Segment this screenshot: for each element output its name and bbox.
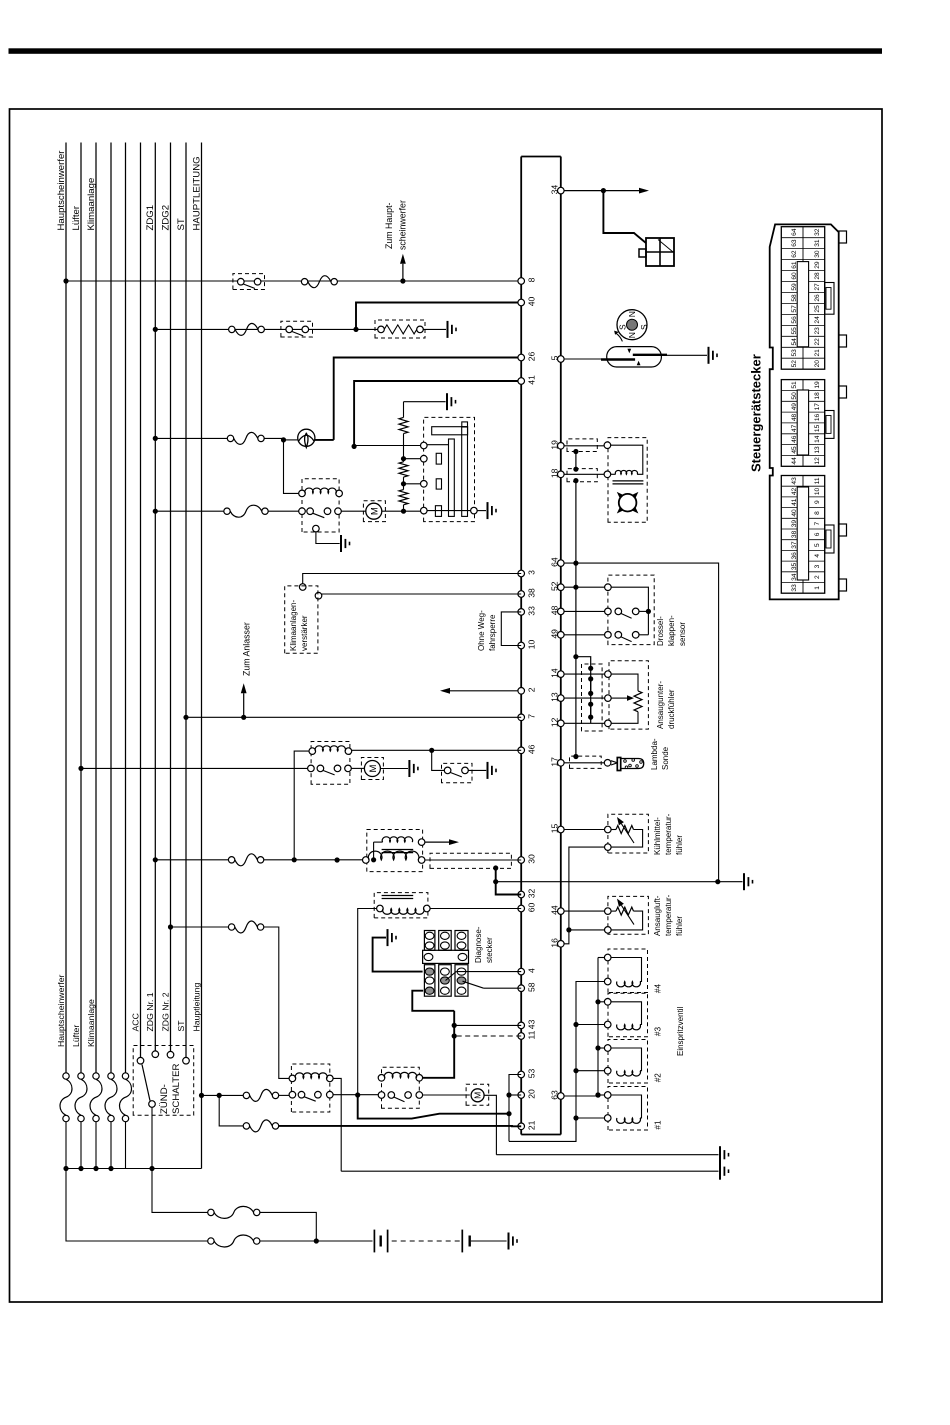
wire pin38: [315, 593, 521, 595]
pin 43: [518, 1022, 525, 1029]
fuse on line l4: [108, 1115, 114, 1121]
junction bus jog: [573, 654, 578, 659]
wire rowM left: [155, 510, 227, 512]
junction ign1 row: [292, 857, 297, 862]
reed plate 2: [601, 358, 635, 360]
TPS dashed box: [608, 575, 654, 645]
junction return #2: [573, 1068, 578, 1073]
svg-text:10: 10: [527, 640, 537, 650]
svg-text:5: 5: [814, 543, 821, 547]
svg-text:fühler: fühler: [675, 835, 684, 855]
wire fuse to V junction: [264, 437, 283, 439]
junction 509 mid: [506, 1111, 511, 1116]
wire common to collector: [151, 1107, 153, 1168]
lambda speckles: [624, 760, 627, 763]
pin 41: [518, 378, 525, 385]
svg-text:17: 17: [814, 403, 821, 411]
coil #3: [617, 1025, 641, 1030]
idle valve core: [613, 480, 644, 482]
wire supply line hl: [201, 143, 203, 1169]
pin 44: [558, 908, 565, 915]
svg-text:21: 21: [814, 349, 821, 357]
ignition coil1 dashed box: [367, 830, 423, 872]
coil1 core: [382, 852, 414, 854]
stub igniter: [495, 868, 497, 882]
svg-text:44: 44: [791, 457, 798, 465]
svg-text:N: N: [627, 332, 637, 338]
AC relay dashed box: [311, 742, 350, 785]
svg-text:39: 39: [791, 520, 798, 528]
magnet rotation arc: [616, 333, 623, 341]
svg-text:54: 54: [791, 338, 798, 346]
pin 64: [558, 560, 565, 567]
svg-text:ZDG1: ZDG1: [145, 205, 156, 231]
svg-text:ST: ST: [176, 218, 187, 230]
junction zdg1 rowV: [153, 436, 158, 441]
svg-text:32: 32: [527, 889, 537, 899]
wire top terminal into bar: [427, 444, 449, 446]
ground row40: [447, 321, 449, 338]
svg-text:64: 64: [549, 557, 559, 567]
diag block lower (3 boxes x3 ellipses): [424, 965, 435, 997]
ladder wire 1-2: [403, 434, 405, 459]
idle valve loop wire: [611, 445, 643, 474]
wire AC contacts to M: [351, 767, 364, 769]
injector #3: [608, 993, 648, 1037]
svg-text:36: 36: [791, 552, 798, 560]
svg-text:3: 3: [814, 564, 821, 568]
terminal ST: [183, 1057, 190, 1064]
wire supply line st: [185, 143, 187, 1061]
fuse relayA: [243, 1092, 249, 1098]
wire to right ground: [496, 881, 718, 883]
wire tap2 to pot: [404, 483, 421, 485]
wire branch to fuse 21: [219, 1095, 246, 1126]
svg-text:29: 29: [814, 261, 821, 269]
coolant dashed box: [608, 814, 649, 853]
wire row8: [66, 280, 521, 282]
thick link to diag connector: [412, 991, 454, 1011]
coil2 core: [382, 898, 414, 900]
M pump dashed box: [466, 1084, 489, 1105]
M dashed box: [363, 501, 385, 522]
svg-text:61: 61: [791, 261, 798, 269]
injector return bus: [576, 982, 605, 1141]
junction branch 21: [217, 1093, 222, 1098]
junction 64-wire gnd: [715, 879, 720, 884]
svg-text:6: 6: [814, 532, 821, 536]
dashed connector 18: [567, 469, 597, 482]
lambda cone link: [611, 761, 617, 763]
MAP wiper arrow: [611, 697, 627, 699]
wire pin32 link: [496, 882, 522, 895]
wire pin12: [564, 722, 605, 724]
junction supply #1: [595, 1092, 600, 1097]
wire after fuse l5: [125, 1122, 127, 1169]
wire sensor to ground: [667, 354, 707, 356]
pot dashed box: [424, 417, 475, 521]
wire relayB to M pump: [423, 1094, 470, 1096]
wire contacts A to B: [333, 1094, 378, 1096]
svg-text:5: 5: [549, 355, 559, 360]
wire supply line l2: [80, 143, 82, 1076]
pin 46: [518, 747, 525, 754]
wire hl to fuse: [202, 1094, 247, 1096]
junction return #1: [573, 1115, 578, 1120]
speed sensor capsule: [607, 347, 662, 367]
ladder resistor 2: [399, 462, 408, 477]
ecu block 33-43: [781, 476, 824, 594]
magnet circle: [617, 310, 647, 340]
pin 7: [518, 714, 525, 721]
fuse main: [208, 1209, 214, 1215]
wire pin4: [456, 971, 521, 973]
junction hauptleitung: [199, 1093, 204, 1098]
wire ign2 to fuse: [171, 926, 232, 928]
wire coolant return to 16 bus: [569, 847, 605, 930]
wire pin18: [564, 473, 604, 475]
rotary valve symbol: [619, 494, 637, 512]
wire bus to pin16: [564, 930, 569, 944]
bus long segment: [575, 481, 577, 757]
svg-text:60: 60: [527, 903, 537, 913]
top rule bar: [9, 48, 883, 54]
thick link to relayB coil: [423, 1011, 455, 1078]
ground pot: [487, 502, 489, 519]
pin 33: [518, 609, 525, 616]
trunk icon diagonal: [658, 240, 673, 253]
HT arrow: [425, 841, 449, 843]
svg-text:14: 14: [814, 435, 821, 443]
block grid: [781, 357, 824, 359]
fuse row40: [229, 326, 235, 332]
wire battery line lower: [260, 1240, 373, 1242]
ground AC switch: [487, 762, 489, 779]
ecu block 44-51: [781, 380, 824, 467]
svg-text:verstärker: verstärker: [300, 615, 309, 651]
svg-text:2: 2: [527, 687, 537, 692]
wire air return: [569, 929, 605, 931]
junction return #3: [573, 1022, 578, 1027]
svg-text:Lambda-: Lambda-: [650, 738, 659, 770]
coolant arrow: [621, 824, 634, 843]
jumper wire: [501, 612, 521, 646]
svg-text:25: 25: [814, 305, 821, 313]
svg-text:58: 58: [791, 294, 798, 302]
svg-text:8: 8: [814, 511, 821, 515]
svg-text:49: 49: [791, 403, 798, 411]
svg-text:4: 4: [527, 968, 537, 973]
svg-text:11: 11: [527, 1030, 537, 1039]
junction bus 52: [573, 585, 578, 590]
svg-text:19: 19: [814, 381, 821, 389]
V symbol tach: [298, 429, 315, 446]
svg-text:#1: #1: [654, 1120, 663, 1130]
igniter dashed box pin30: [430, 853, 511, 868]
wire r3 to M row: [403, 505, 405, 511]
svg-text:63: 63: [791, 239, 798, 247]
svg-text:11: 11: [814, 477, 821, 484]
svg-text:Klimaanlage: Klimaanlage: [86, 999, 96, 1047]
wire diag to pin58: [463, 981, 484, 988]
svg-text:Zum Anlasser: Zum Anlasser: [242, 622, 252, 676]
pin 15: [558, 826, 565, 833]
switch dashed row8: [233, 274, 265, 290]
svg-text:temperatur-: temperatur-: [664, 813, 673, 855]
pin 21: [518, 1123, 525, 1130]
svg-text:62: 62: [791, 250, 798, 258]
rail right end: [521, 156, 561, 158]
coil1 primary winding: [363, 857, 370, 864]
svg-text:60: 60: [791, 272, 798, 280]
lambda flange bar: [617, 758, 620, 771]
relay1 coil: [299, 490, 306, 497]
junction collector switch-common: [149, 1166, 154, 1171]
ground diag: [387, 929, 389, 946]
svg-text:41: 41: [791, 498, 798, 506]
pin 53: [518, 1071, 525, 1078]
pin 20: [518, 1092, 525, 1099]
svg-text:Hauptscheinwerfer: Hauptscheinwerfer: [56, 974, 66, 1047]
terminal ACC: [137, 1057, 144, 1064]
relay1 contacts: [299, 508, 306, 515]
pin 48: [558, 608, 565, 615]
wire pin11 dashed: [454, 1035, 521, 1037]
junction secondary: [371, 857, 376, 862]
wire ign2 to relayA coil: [264, 927, 289, 1078]
wire pin20: [509, 1094, 521, 1096]
wire rowV left: [155, 437, 230, 439]
svg-text:ZDG2: ZDG2: [160, 205, 171, 231]
ladder resistor 3: [399, 490, 408, 505]
wire fuse to battery node: [260, 1212, 316, 1241]
junction l1: [63, 278, 68, 283]
rail upper line: [520, 157, 522, 1135]
block latch: [825, 283, 834, 315]
MAP resistor loop: [611, 674, 638, 691]
wire pin34 w arrow: [564, 190, 639, 192]
wire coilA right to ground2: [333, 1078, 341, 1171]
svg-text:21: 21: [527, 1120, 537, 1130]
ground wire1 symbol: [719, 1146, 721, 1163]
wire junction to pot top terminal: [354, 445, 421, 447]
svg-text:26: 26: [814, 294, 821, 302]
svg-text:Hauptscheinwerfer: Hauptscheinwerfer: [56, 150, 67, 231]
wire supply line zdg1: [154, 143, 156, 1055]
pot bar 2: [462, 427, 468, 516]
wire fuse to contacts: [279, 1094, 290, 1096]
wire pot bottom out: [427, 510, 471, 512]
svg-text:15: 15: [549, 824, 559, 834]
air dashed box: [608, 896, 649, 934]
svg-text:druckfühler: druckfühler: [667, 689, 676, 729]
junction supply #2: [595, 1045, 600, 1050]
battery plates 2: [461, 1230, 463, 1253]
junction st: [183, 715, 188, 720]
wire ign1 to fuse: [155, 859, 231, 861]
loop wire #2: [611, 1048, 642, 1071]
svg-text:S: S: [639, 324, 649, 330]
wire tap1 to pot: [404, 458, 421, 460]
svg-text:34: 34: [549, 185, 559, 195]
ground wire2 symbol: [719, 1163, 721, 1180]
ground relay1 NC: [340, 535, 342, 552]
switch dashed row40: [281, 321, 313, 337]
svg-text:Ohne Weg-: Ohne Weg-: [477, 610, 486, 651]
junction anlasser: [241, 715, 246, 720]
fuse rowV: [227, 435, 233, 441]
svg-text:49: 49: [549, 629, 559, 639]
wire supply line l4: [110, 143, 112, 1076]
fuse ign2: [228, 924, 234, 930]
pin 19: [558, 443, 565, 450]
terminal ZDG1: [152, 1051, 159, 1058]
junction ground-wire start: [493, 879, 498, 884]
wire pin3: [303, 574, 522, 585]
fuse on line l1: [63, 1115, 69, 1121]
MAP terminals: [605, 671, 612, 678]
svg-text:M: M: [473, 1092, 483, 1099]
relayA contacts: [289, 1091, 296, 1098]
trunk icon tab: [639, 249, 646, 257]
junction headlamp arrow: [400, 278, 405, 283]
wire supply line acc: [140, 143, 142, 1061]
wire pin15: [564, 829, 605, 831]
wire collector vertical: [66, 1168, 202, 1170]
relayB dashed box: [382, 1067, 420, 1108]
injector supply bus: [597, 958, 599, 1096]
wire l2 to AC contacts: [81, 767, 308, 769]
svg-text:46: 46: [527, 744, 537, 754]
coil #4: [617, 982, 641, 987]
wire pin40 branch: [356, 303, 521, 330]
svg-text:18: 18: [549, 468, 559, 478]
svg-text:55: 55: [791, 327, 798, 335]
svg-text:23: 23: [814, 327, 821, 335]
relayB contacts: [378, 1092, 385, 1099]
svg-text:Lüfter: Lüfter: [71, 1025, 81, 1047]
svg-text:30: 30: [527, 854, 537, 864]
svg-text:22: 22: [814, 338, 821, 346]
junction collector l3: [93, 1166, 98, 1171]
svg-text:57: 57: [791, 305, 798, 313]
lambda terminal: [604, 760, 611, 767]
svg-text:ZÜND-: ZÜND-: [159, 1084, 170, 1114]
pin 8: [518, 278, 525, 285]
fuse battery line: [208, 1238, 214, 1244]
ground ladder: [446, 393, 448, 410]
wire after fuse l4: [110, 1122, 112, 1169]
relayB coil: [378, 1075, 385, 1082]
svg-text:Ansaugluft-: Ansaugluft-: [653, 895, 662, 936]
switch blade: [142, 1065, 150, 1101]
wire pin43: [454, 1024, 521, 1026]
svg-text:63: 63: [549, 1090, 559, 1100]
fuse on line l3: [93, 1115, 99, 1121]
AC relay coil: [309, 748, 316, 755]
pin 49: [558, 632, 565, 639]
svg-text:34: 34: [791, 573, 798, 581]
svg-text:M: M: [368, 764, 379, 772]
svg-text:59: 59: [791, 283, 798, 291]
idle valve terminals: [604, 442, 611, 449]
svg-text:stecker: stecker: [485, 937, 494, 963]
wire coil1 to pin30: [425, 859, 521, 861]
block slot: [797, 262, 808, 347]
svg-text:26: 26: [527, 352, 537, 362]
wire injector return link: [509, 1118, 576, 1141]
svg-text:27: 27: [814, 283, 821, 291]
svg-text:52: 52: [549, 581, 559, 591]
svg-text:Steuergerätstecker: Steuergerätstecker: [749, 354, 764, 472]
svg-text:N: N: [627, 311, 637, 317]
junction pin20 wire: [506, 1092, 511, 1097]
pin 2: [518, 688, 525, 695]
wire r2 to tap2: [403, 477, 405, 484]
KV terminal1: [299, 584, 306, 591]
MAP connector dots: [588, 666, 593, 671]
fuse row8: [301, 278, 307, 284]
svg-text:20: 20: [814, 360, 821, 368]
M AC circle: [364, 761, 380, 777]
common terminal: [149, 1101, 156, 1108]
relayA coil: [289, 1075, 296, 1082]
svg-text:32: 32: [814, 228, 821, 236]
svg-text:scheinwerfer: scheinwerfer: [397, 200, 407, 250]
wire ign1 to coil: [264, 859, 363, 861]
pin 34: [558, 187, 565, 194]
svg-text:43: 43: [527, 1019, 537, 1029]
svg-text:38: 38: [527, 588, 537, 598]
svg-text:Klimaanlage: Klimaanlage: [86, 178, 97, 231]
svg-text:Hauptleitung: Hauptleitung: [191, 983, 201, 1032]
wire after fuse l3: [95, 1122, 97, 1169]
TPS switch 49: [615, 632, 622, 639]
junction tap1: [401, 456, 406, 461]
dashed box ignition switch: [133, 1046, 194, 1116]
wire V junction to relay coil: [284, 440, 300, 494]
svg-text:#3: #3: [654, 1027, 663, 1037]
coil1 secondary winding: [382, 837, 412, 842]
svg-text:16: 16: [549, 938, 559, 948]
fuse ign1: [228, 857, 234, 863]
junction collector l4: [108, 1166, 113, 1171]
wire pin63: [564, 1095, 598, 1097]
arrow Zum Anlasser: [243, 693, 245, 717]
svg-text:33: 33: [527, 606, 537, 616]
junction ladder bottom: [401, 509, 406, 514]
pin 11: [518, 1033, 525, 1040]
wire after fuse l2: [80, 1122, 82, 1169]
block latch: [825, 525, 834, 553]
junction zdg1 rowM: [153, 509, 158, 514]
pin 63: [558, 1093, 565, 1100]
wire common to main fuses: [152, 1169, 211, 1213]
trunk icon cross: [646, 251, 674, 253]
ground speed sensor: [708, 347, 710, 364]
svg-text:ZDG Nr. 1: ZDG Nr. 1: [145, 992, 155, 1031]
svg-text:35: 35: [791, 563, 798, 571]
relayA dashed box: [291, 1064, 329, 1112]
wire ground2 long: [341, 1170, 718, 1172]
svg-text:Zum Haupt-: Zum Haupt-: [384, 202, 394, 249]
pot cross bar: [432, 427, 468, 435]
junction zdg1 ign1: [153, 857, 158, 862]
pin 58: [518, 985, 525, 992]
air arrow: [621, 905, 634, 924]
svg-text:S: S: [618, 324, 628, 330]
svg-text:HAUPTLEITUNG: HAUPTLEITUNG: [191, 156, 202, 230]
